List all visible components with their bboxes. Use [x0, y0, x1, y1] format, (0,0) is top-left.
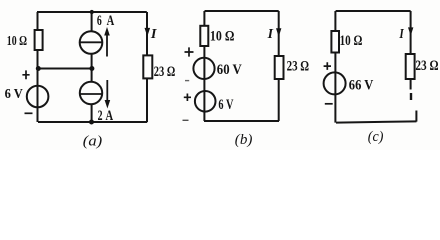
svg-text:I: I	[150, 26, 158, 41]
svg-text:(b): (b)	[235, 132, 253, 148]
svg-text:(c): (c)	[368, 129, 384, 145]
svg-text:(a): (a)	[83, 133, 103, 149]
svg-text:I: I	[267, 26, 274, 41]
svg-text:2: 2	[98, 108, 103, 124]
svg-text:10 Ω: 10 Ω	[210, 28, 235, 44]
svg-text:I: I	[399, 26, 405, 41]
svg-text:60 V: 60 V	[217, 62, 243, 78]
svg-text:66 V: 66 V	[349, 78, 374, 94]
svg-text:10 Ω: 10 Ω	[340, 33, 363, 49]
svg-text:23 Ω: 23 Ω	[154, 64, 176, 80]
svg-text:A: A	[107, 13, 115, 29]
svg-text:10 Ω: 10 Ω	[7, 33, 27, 48]
svg-text:6 V: 6 V	[5, 86, 23, 101]
svg-text:6 V: 6 V	[218, 97, 234, 113]
svg-text:23 Ω: 23 Ω	[287, 58, 310, 74]
svg-text:A: A	[106, 108, 114, 124]
svg-text:23 Ω: 23 Ω	[415, 58, 438, 74]
svg-text:6: 6	[97, 13, 102, 29]
